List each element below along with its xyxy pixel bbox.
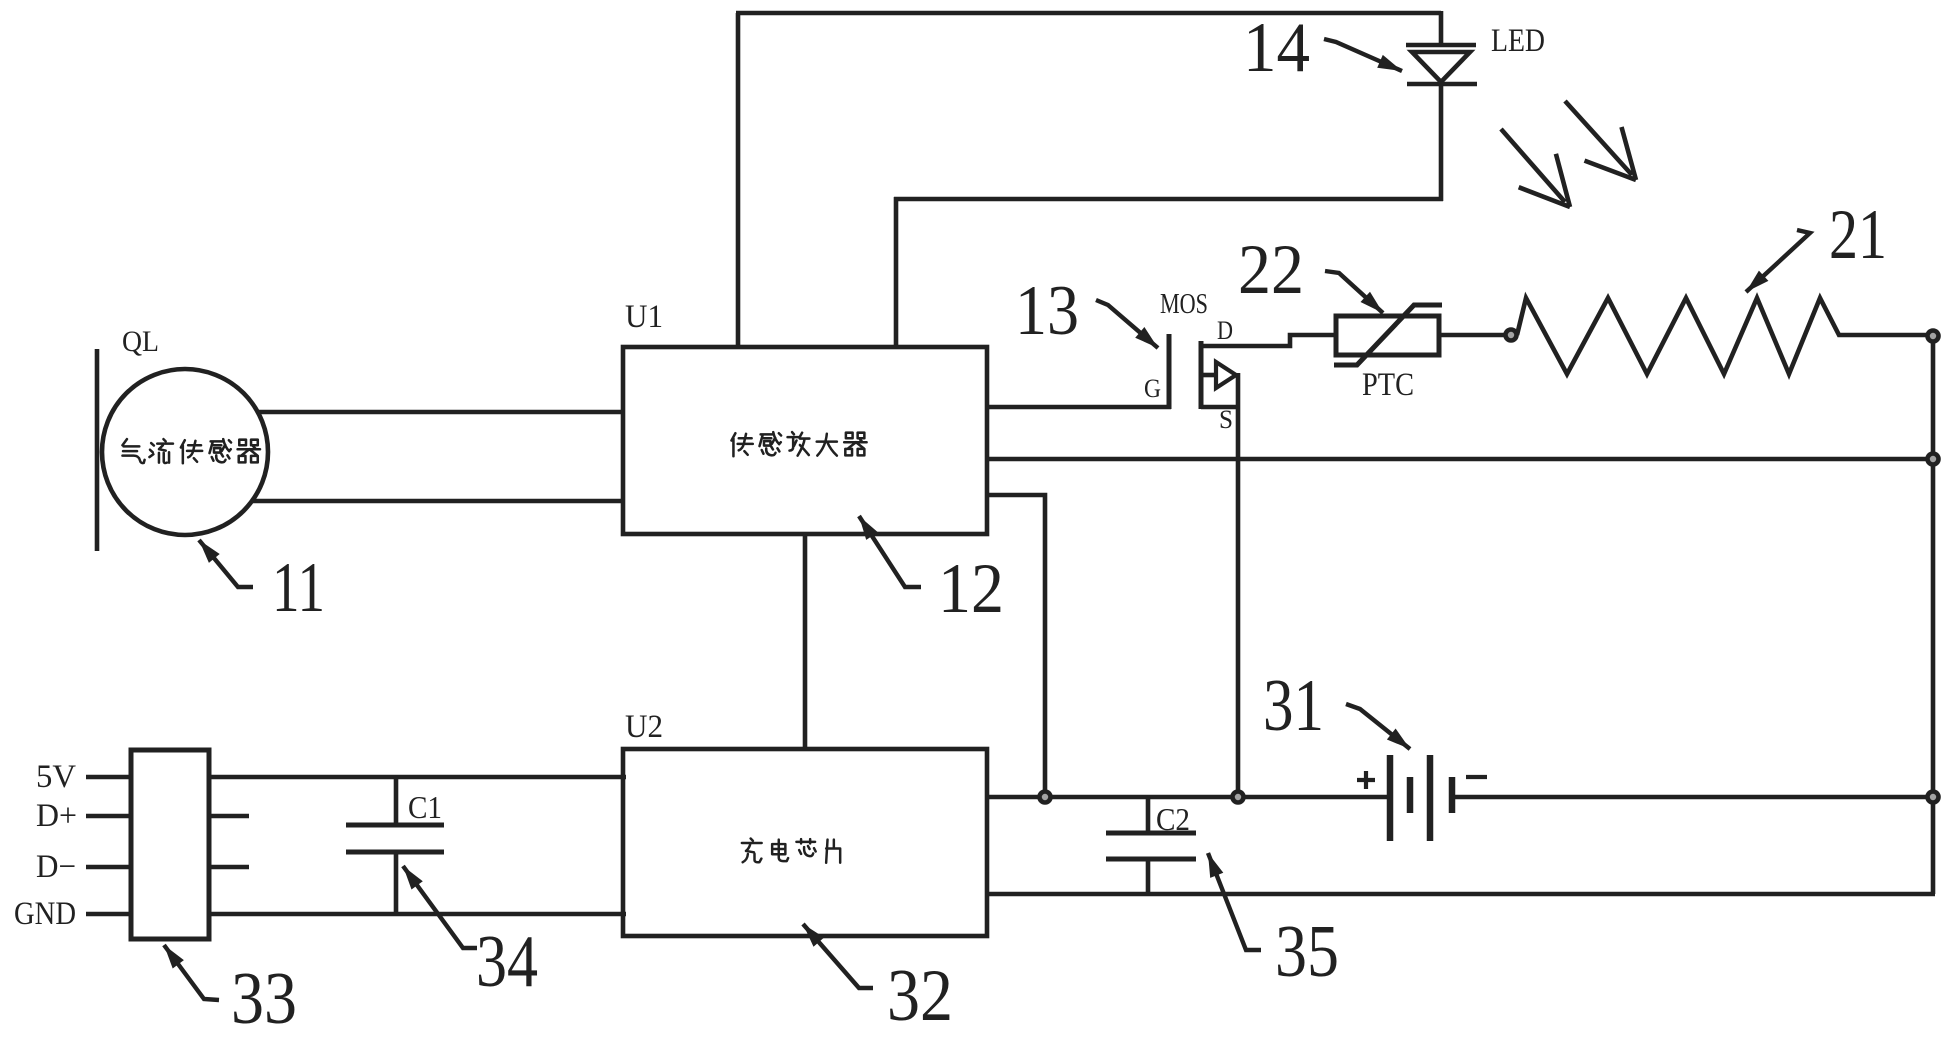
LED light ray arrow 1 [1501,129,1570,207]
label 13 leader arrow [1096,300,1158,348]
label 22 leader arrow [1325,271,1383,313]
svg-text:5V: 5V [36,759,76,795]
wire U1 sense long horizontal [987,457,1930,462]
node resistor right end [1928,331,1939,342]
node sense-bus junction [1928,454,1939,465]
U2 text (chong dian xin pian) [742,839,840,863]
svg-text:11: 11 [272,549,325,627]
wire LED cathode stub [1439,84,1444,201]
svg-text:QL: QL [122,325,159,358]
svg-text:C2: C2 [1156,801,1190,837]
label 12 leader arrow [859,516,921,587]
pin D+ wire [86,814,131,819]
U1 text (chuan gan fang da qi) [731,432,866,456]
wire sensor to U1 (upper) [248,410,626,415]
pin GND wire [86,912,131,917]
node MOS source to battery [1233,792,1244,803]
airflow sensor QL circle [102,369,268,535]
svg-text:22: 22 [1238,231,1304,309]
label 33 leader arrow [164,945,219,1000]
node battery negative bus [1928,792,1939,803]
svg-text:U1: U1 [625,299,663,335]
svg-text:D: D [1217,316,1233,345]
svg-text:12: 12 [938,550,1004,628]
svg-text:33: 33 [231,958,297,1039]
svg-text:LED: LED [1491,23,1545,59]
wire battery positive [987,795,1390,800]
LED diode D14 [1406,45,1477,84]
svg-text:35: 35 [1275,911,1339,993]
svg-text:13: 13 [1015,272,1079,350]
pin D- stub right [209,865,249,870]
svg-text:U2: U2 [625,709,663,745]
battery BT31 [1390,755,1452,841]
svg-text:GND: GND [14,896,76,932]
USB connector J33 box [131,750,209,939]
label 31 leader arrow [1346,704,1410,749]
wire U1 to MOS gate [987,405,1171,410]
wire U1 output jog [987,495,1045,797]
svg-text:31: 31 [1263,665,1324,747]
label 21 leader arrow [1746,230,1810,292]
svg-text:PTC: PTC [1362,367,1414,403]
resistor R21 heating coil [1517,298,1927,374]
label 35 leader arrow [1208,853,1261,950]
airflow sensor text (qi liu chuan gan qi) [122,439,260,463]
wire LED anode stub [1439,11,1444,46]
svg-text:32: 32 [887,955,953,1037]
wire 5V to U2 [209,775,626,780]
pin 5V wire [86,775,131,780]
wire LED return horizontal [894,197,1443,202]
airflow sensor mouthpiece bar [95,349,100,551]
wire GND to U2 [209,912,626,917]
label 11 leader arrow [199,540,253,587]
svg-text:21: 21 [1829,196,1887,274]
svg-text:34: 34 [476,921,538,1003]
wire top horizontal to LED anode [736,11,1441,16]
wire PTC to node [1439,333,1506,338]
svg-text:G: G [1144,374,1161,403]
wire U1 pin (top-left) vertical [736,13,741,349]
wire bottom ground [987,892,1935,897]
wire battery negative [1452,795,1930,800]
wire U1 pin (top-right) vertical [894,197,899,349]
label 32 leader arrow [803,924,873,988]
LED light ray arrow 2 [1565,101,1636,180]
wire MOS source vertical [1236,373,1241,797]
wire sensor to U1 (lower) [248,499,626,504]
svg-text:D−: D− [36,849,76,885]
node U1 output to battery rail [1040,792,1051,803]
PTC diagonal strike [1334,305,1442,365]
PTC thermistor box [1336,316,1439,355]
battery plus sign [1357,771,1375,789]
label 34 leader arrow [403,866,477,948]
svg-text:14: 14 [1243,9,1310,87]
pin D- wire [86,865,131,870]
charging chip U2 box [623,749,987,936]
wire U1 to U2 vertical [803,534,808,749]
MOS transistor Q13 [1169,334,1338,409]
svg-text:S: S [1219,405,1233,434]
capacitor C1 [346,777,444,914]
node PTC-resistor junction [1506,330,1517,341]
amplifier U1 box [623,347,987,534]
battery minus sign [1466,775,1487,779]
svg-text:C1: C1 [408,789,442,825]
pin D+ stub right [209,814,249,819]
label 14 leader arrow [1324,39,1402,71]
svg-text:MOS: MOS [1160,289,1208,320]
capacitor C2 [1106,797,1196,894]
svg-text:D+: D+ [36,798,77,834]
wire right vertical bus [1931,341,1936,894]
